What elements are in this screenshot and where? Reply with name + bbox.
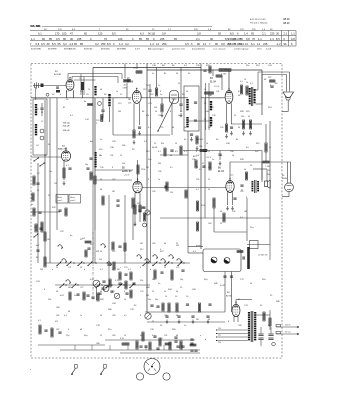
svg-text:25: 25 (120, 155, 122, 157)
wire B6 anode (229, 162, 231, 180)
magic eye return wire (288, 192, 290, 197)
svg-text:1M: 1M (40, 269, 43, 271)
svg-text:R27: R27 (268, 77, 271, 79)
psu small circle (272, 342, 276, 346)
svg-text:C42: C42 (210, 107, 215, 109)
row2 dots (65, 284, 66, 285)
hum resistor cluster (270, 80, 276, 82)
gnd B5 (134, 222, 137, 226)
dial drive pulley large (144, 359, 160, 375)
svg-text:C18: C18 (152, 65, 157, 67)
parts right of lamp box (237, 251, 243, 253)
svg-text:3,8: 3,8 (197, 32, 201, 36)
svg-text:2,2: 2,2 (37, 173, 41, 175)
gnd B6 b (231, 206, 234, 210)
svg-text:1k: 1k (165, 296, 167, 298)
padder cap C11 (101, 109, 104, 111)
svg-text:65: 65 (58, 42, 61, 46)
svg-text:50: 50 (140, 335, 142, 337)
svg-text:C49: C49 (208, 167, 211, 169)
coil S4 bars (94, 86, 96, 88)
tube B4 grids (227, 93, 232, 95)
IF secondary coil b (210, 117, 212, 119)
svg-text:225: 225 (263, 42, 268, 46)
left lower parts (34, 234, 39, 238)
svg-text:C76: C76 (150, 329, 155, 331)
tube B3a grids (63, 153, 69, 155)
svg-text:S1: S1 (36, 257, 39, 259)
svg-text:+10: +10 (230, 175, 234, 177)
svg-text:C89: C89 (112, 335, 115, 337)
resistor x224 (223, 213, 225, 222)
svg-text:-1,2 V: -1,2 V (124, 175, 130, 177)
svg-text:3,2: 3,2 (95, 42, 99, 46)
note box 2 (69, 195, 81, 204)
contact hook c (66, 280, 71, 283)
svg-text:S2: S2 (52, 94, 55, 96)
output transformer 2 core (254, 180, 256, 193)
svg-text:8,5: 8,5 (52, 42, 56, 46)
left bottom parts (39, 325, 41, 334)
svg-text:0: 0 (90, 37, 92, 41)
svg-text:46: 46 (170, 155, 172, 157)
wire x133 down (132, 208, 134, 240)
filter caps to gnd (165, 315, 168, 317)
svg-text:C81: C81 (56, 315, 59, 317)
svg-text:82k: 82k (161, 143, 164, 145)
vertical x109 low (108, 195, 110, 285)
svg-text:50: 50 (56, 291, 58, 293)
IF secondary coil a (210, 101, 212, 103)
trimmer C7 beside B1 (81, 82, 84, 90)
svg-text:C15: C15 (118, 103, 121, 105)
svg-text:C9: C9 (86, 94, 89, 96)
svg-text:1,4: 1,4 (244, 32, 248, 36)
svg-text:S13: S13 (90, 244, 93, 246)
dial pulley small left (136, 373, 143, 380)
wire B5 anode up (137, 160, 139, 181)
svg-text:det: det (90, 140, 93, 143)
left col parts mid (33, 208, 35, 216)
svg-text:ECH 81: ECH 81 (54, 74, 62, 76)
svg-text:25: 25 (152, 291, 154, 293)
svg-text:0,5: 0,5 (199, 169, 202, 171)
dark resistor x45 (44, 257, 46, 267)
svg-text:14: 14 (156, 42, 159, 46)
svg-text:2M: 2M (140, 243, 143, 245)
speaker return wire (287, 100, 289, 112)
resistor x196 b (196, 222, 198, 231)
svg-text:50p: 50p (85, 164, 88, 166)
svg-text:1n: 1n (116, 91, 118, 93)
resistor R31 vert (166, 182, 168, 191)
cap cluster x143 (141, 206, 144, 208)
svg-text:8: 8 (44, 289, 46, 291)
svg-text:25: 25 (48, 195, 51, 197)
magic eye feed wire (230, 161, 291, 163)
resistor x214 (213, 198, 215, 208)
svg-text:1n: 1n (100, 155, 102, 157)
wire gram (247, 244, 270, 246)
svg-text:0,5: 0,5 (170, 167, 173, 169)
svg-text:1k: 1k (124, 335, 126, 337)
B4 cathode resistor (225, 124, 227, 132)
wire B+ down right (261, 70, 263, 115)
loudspeaker (external) (283, 92, 294, 98)
svg-text:C69: C69 (152, 243, 155, 245)
tube B2 grids (134, 93, 139, 95)
svg-text:4: 4 (60, 94, 62, 96)
svg-text:50µ: 50µ (84, 335, 88, 337)
svg-text:8: 8 (140, 315, 141, 317)
svg-text:65: 65 (146, 37, 149, 41)
svg-text:B1: B1 (55, 71, 58, 73)
magic eye wires (287, 162, 289, 183)
waveband switch row 1 wire (45, 262, 190, 264)
svg-text:50: 50 (100, 179, 102, 181)
grid cap parts (56, 86, 59, 88)
magic eye EM80 (285, 183, 294, 192)
svg-text:S15: S15 (256, 143, 260, 145)
svg-text:12: 12 (120, 94, 123, 96)
wire B4 cathode down (226, 103, 228, 124)
main tuning bus (31, 97, 66, 99)
heater parts row (122, 343, 129, 345)
svg-text:46: 46 (176, 335, 178, 337)
svg-text:85: 85 (139, 37, 142, 41)
svg-text:25: 25 (180, 111, 183, 113)
svg-text:50µ: 50µ (155, 299, 159, 301)
svg-text:25: 25 (270, 295, 273, 297)
svg-text:1k: 1k (246, 82, 248, 84)
svg-text:50µ: 50µ (204, 279, 208, 281)
svg-text:20°C: 20°C (257, 48, 262, 50)
aerial drop to coil box (35, 87, 37, 100)
svg-text:50: 50 (175, 143, 177, 145)
svg-text:C28: C28 (112, 141, 117, 143)
svg-text:46: 46 (164, 243, 166, 245)
svg-text:6,3: 6,3 (140, 32, 144, 36)
svg-text:96 110: 96 110 (148, 33, 156, 36)
svg-text:8: 8 (112, 167, 113, 169)
svg-text:85: 85 (49, 37, 52, 41)
resistor R7 top (124, 80, 131, 82)
svg-text:C2: C2 (36, 109, 39, 111)
svg-text:46: 46 (246, 91, 248, 93)
svg-text:220k: 220k (141, 169, 145, 171)
resistor x196 a (196, 201, 198, 211)
svg-text:C68: C68 (192, 289, 197, 291)
AGC bus (44, 100, 46, 263)
wire x214 down (213, 208, 215, 232)
svg-text:82: 82 (164, 73, 167, 75)
svg-text:46: 46 (176, 315, 178, 317)
svg-text:12: 12 (203, 42, 206, 46)
cap C16 row1 (148, 89, 151, 91)
tube B6 envelope (226, 181, 234, 193)
wire to speaker top b (286, 75, 288, 92)
wire y322 psu (147, 321, 225, 323)
svg-text:1M: 1M (170, 192, 173, 194)
svg-text:C85: C85 (164, 315, 167, 317)
svg-text:1M: 1M (117, 269, 120, 271)
svg-text:1n: 1n (178, 115, 180, 117)
svg-text:C37: C37 (112, 179, 115, 181)
svg-text:1M: 1M (47, 239, 50, 241)
det diode resistor (94, 176, 96, 184)
svg-text:2,1: 2,1 (284, 32, 288, 36)
svg-text:punt 1: punt 1 (57, 199, 62, 202)
svg-text:8: 8 (68, 329, 69, 331)
svg-text:4k7: 4k7 (162, 65, 166, 67)
svg-text:0,1: 0,1 (152, 335, 155, 337)
svg-text:0,1: 0,1 (66, 91, 69, 93)
coupling cap C61 (164, 185, 166, 188)
svg-text:8k2: 8k2 (200, 139, 204, 141)
svg-text:65: 65 (84, 32, 87, 36)
osc trimmer circle (98, 102, 102, 106)
svg-text:b: b (205, 339, 207, 341)
svg-text:1k: 1k (79, 78, 82, 80)
svg-text:B6 EM80: B6 EM80 (117, 48, 127, 50)
svg-text:2k: 2k (164, 291, 166, 293)
svg-text:C50: C50 (230, 151, 235, 153)
svg-text:46: 46 (124, 84, 127, 86)
B+ rail top (147, 69, 262, 71)
rectifier top wires (235, 300, 237, 305)
svg-text:6: 6 (291, 42, 293, 46)
svg-text:c: c (120, 267, 121, 269)
svg-text:1M: 1M (146, 167, 149, 169)
cap x234 (233, 197, 236, 199)
svg-text:0,1: 0,1 (148, 127, 151, 129)
contact hook j (169, 255, 174, 258)
svg-text:25µ: 25µ (66, 335, 70, 337)
tube B1 envelope (66, 80, 74, 91)
svg-text:2,1: 2,1 (262, 32, 266, 36)
wire x262 mid (261, 162, 263, 180)
svg-text:50: 50 (260, 305, 263, 307)
svg-text:25: 25 (204, 103, 207, 105)
parts under note boxes (58, 209, 61, 211)
svg-text:4n: 4n (84, 101, 86, 103)
vertical x93 ext (92, 155, 94, 263)
wire y246 gram (188, 246, 203, 248)
tube B5 grids (135, 183, 141, 185)
svg-text:C35: C35 (158, 171, 161, 173)
tube B3a cathode+heater (64, 159, 68, 161)
wires lamp box down (224, 272, 226, 291)
svg-text:1k: 1k (206, 143, 208, 145)
wire left drop x93 (92, 68, 94, 156)
svg-text:1n: 1n (80, 315, 82, 317)
svg-text:50: 50 (238, 127, 240, 129)
svg-text:6,3 170 245 12: 6,3 170 245 12 (228, 43, 245, 46)
svg-text:250: 250 (162, 42, 167, 46)
svg-text:0,1: 0,1 (64, 315, 68, 317)
svg-text:C47: C47 (196, 155, 199, 157)
svg-text:46: 46 (238, 95, 241, 97)
parts above B4 (203, 69, 206, 71)
svg-text:25: 25 (234, 115, 236, 117)
resistor on eye feed (263, 161, 269, 163)
svg-text:7: 7 (209, 42, 211, 46)
svg-text:S9: S9 (132, 149, 135, 151)
svg-text:S6: S6 (172, 65, 175, 67)
svg-text:A 25 014 57 4/9: A 25 014 57 4/9 (250, 18, 266, 21)
svg-text:25: 25 (180, 287, 183, 289)
B+ mid rail y150 (183, 150, 262, 152)
tube B6 grids (227, 183, 232, 185)
dial lamp assembly box (203, 249, 241, 272)
svg-text:C45: C45 (220, 127, 223, 129)
svg-text:C25: C25 (160, 127, 163, 129)
svg-text:50p: 50p (180, 279, 183, 281)
tube B7 envelope (232, 304, 240, 316)
filter caps pair (174, 336, 177, 338)
wire B6 cathode down (227, 192, 229, 205)
waveband switch row 2 wire (55, 284, 150, 286)
wire B3a grid (31, 156, 61, 158)
psu resistor b (176, 303, 178, 312)
svg-text:120: 120 (98, 32, 103, 36)
svg-text:2k: 2k (88, 89, 90, 91)
svg-text:55: 55 (218, 32, 221, 36)
S8 coil b (186, 117, 188, 119)
svg-text:25k: 25k (140, 280, 143, 282)
svg-text:S14: S14 (256, 65, 260, 67)
svg-text:46: 46 (196, 167, 198, 169)
svg-text:0,5: 0,5 (124, 315, 127, 317)
svg-text:50: 50 (216, 139, 219, 141)
svg-text:1n: 1n (158, 179, 160, 181)
svg-text:B4: B4 (210, 78, 214, 80)
svg-text:C72: C72 (240, 279, 245, 281)
volume pot main (93, 280, 100, 287)
svg-text:65: 65 (174, 37, 177, 41)
svg-text:3,8: 3,8 (221, 42, 225, 46)
wire x205 vert (204, 98, 206, 218)
svg-text:30: 30 (276, 32, 279, 36)
svg-text:0,5: 0,5 (238, 91, 241, 93)
svg-text:50: 50 (232, 155, 234, 157)
svg-text:50: 50 (37, 190, 40, 192)
psu extra caps (150, 304, 153, 306)
svg-text:0,8: 0,8 (36, 42, 40, 46)
det area parts (86, 167, 89, 169)
svg-text:C17: C17 (143, 89, 146, 91)
tone pot parts (139, 205, 141, 212)
svg-text:3,2: 3,2 (63, 42, 67, 46)
wire bottom left (38, 344, 105, 346)
svg-text:220: 220 (150, 94, 154, 96)
svg-text:d: d (150, 269, 151, 271)
svg-text:50: 50 (100, 251, 102, 253)
svg-text:R50: R50 (172, 329, 177, 331)
svg-text:C48: C48 (226, 143, 231, 145)
svg-text:46: 46 (112, 269, 114, 271)
voltage table right column separators (281, 31, 283, 47)
contact hook k (177, 259, 182, 262)
svg-text:25: 25 (178, 83, 180, 85)
rail resistor R30 (200, 149, 207, 151)
upper rail (93, 67, 201, 69)
cluster x106-117 (107, 263, 110, 265)
svg-text:0,5: 0,5 (185, 42, 189, 46)
svg-text:1,1: 1,1 (258, 37, 262, 41)
lamp 2 (224, 258, 230, 264)
svg-text:25: 25 (152, 321, 154, 323)
svg-text:25: 25 (100, 335, 102, 337)
svg-text:50: 50 (160, 325, 163, 327)
tube B3a envelope (61, 151, 70, 161)
screen resistor pair b (246, 86, 248, 95)
tube B2 envelope (132, 91, 141, 104)
tube B1 grids (68, 82, 73, 84)
svg-text:25n: 25n (148, 159, 151, 161)
svg-text:0,5: 0,5 (175, 151, 179, 153)
rectifier leads (233, 317, 235, 322)
svg-text:250: 250 (101, 42, 106, 46)
svg-text:C51: C51 (196, 179, 199, 181)
svg-text:100: 100 (62, 32, 67, 36)
svg-text:C87: C87 (56, 329, 59, 331)
row2 extra parts (69, 292, 71, 300)
svg-text:25k: 25k (122, 163, 125, 165)
detector coil S10 (94, 152, 96, 154)
decoupling cap on rail (218, 153, 221, 155)
svg-text:1,4: 1,4 (119, 42, 123, 46)
contact hook h (153, 255, 158, 258)
svg-text:C83: C83 (112, 315, 115, 317)
wire x188 down (187, 131, 189, 253)
svg-text:2n: 2n (208, 151, 210, 153)
wire to speaker top a (258, 71, 290, 73)
left psu parts (142, 332, 144, 341)
svg-text:25k: 25k (128, 103, 132, 105)
svg-text:0: 0 (113, 42, 115, 46)
svg-text:2,1: 2,1 (196, 37, 200, 41)
right top parts x243 (242, 120, 244, 129)
cap right of B6 (240, 184, 243, 186)
svg-text:1,4: 1,4 (270, 37, 274, 41)
screen resistor pair a (240, 85, 242, 94)
svg-text:R48: R48 (276, 301, 281, 303)
tube B6 anode (228, 181, 232, 183)
svg-text:30: 30 (210, 37, 213, 41)
contact hook e (107, 262, 112, 265)
svg-text:1k: 1k (124, 299, 126, 301)
svg-text:4,7k: 4,7k (115, 280, 119, 282)
svg-text:65: 65 (74, 42, 77, 46)
caps below lamp box (223, 275, 226, 277)
svg-text:6,1: 6,1 (251, 42, 255, 46)
svg-text:a: a (200, 335, 202, 337)
svg-text:2n: 2n (31, 204, 33, 206)
parts between IF rows (164, 148, 166, 156)
wire x95 bus (94, 98, 96, 230)
svg-text:gemeten met: gemeten met (172, 47, 185, 50)
svg-text:R46: R46 (214, 283, 219, 285)
psu cap b (208, 303, 211, 305)
osc coil leads (112, 98, 114, 135)
resistor R6 above B2 (136, 71, 142, 73)
svg-text:a: a (52, 269, 54, 271)
svg-text:25: 25 (154, 143, 157, 145)
svg-text:B3 EABC80: B3 EABC80 (64, 47, 76, 50)
svg-text:AB 28: AB 28 (283, 18, 290, 21)
svg-text:1M: 1M (244, 211, 247, 213)
